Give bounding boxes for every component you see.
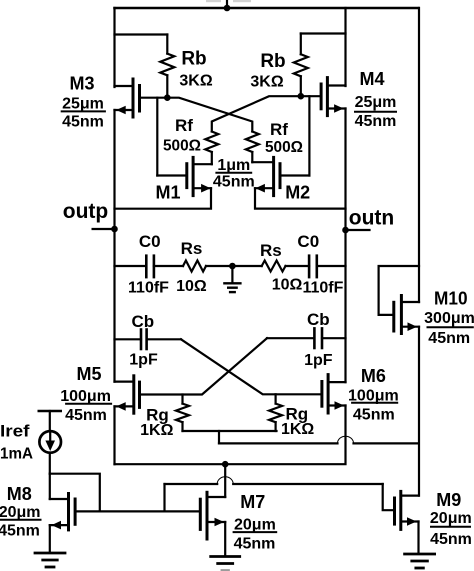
wire: left VDD branch down to M3 source bbox=[113, 8, 115, 87]
svg-text:C0: C0 bbox=[139, 232, 161, 251]
resistor Rg (right) bbox=[269, 394, 282, 431]
wire: right rail M4 source down through outn bbox=[344, 109, 346, 383]
node outp with terminal stub bbox=[93, 226, 118, 233]
svg-text:45nm: 45nm bbox=[353, 406, 395, 423]
transistor M2 bbox=[252, 157, 280, 195]
wire: bias branch up and over to M9 with hop over M7 drain bbox=[165, 477, 395, 512]
ground (M7) bbox=[211, 557, 240, 571]
wire: left rail M3 drain down through outp bbox=[113, 110, 115, 382]
label M6 100μm/45nm bbox=[348, 366, 399, 423]
svg-text:M7: M7 bbox=[240, 492, 265, 512]
label Rg 1KΩ (left) bbox=[140, 405, 173, 439]
wire: outn rail M6 source down to tail rail bbox=[115, 406, 346, 465]
label Rf 500Ω (left) bbox=[163, 116, 201, 155]
wire: M1 source to outp rail bbox=[115, 188, 212, 209]
svg-text:1pF: 1pF bbox=[129, 351, 158, 368]
svg-text:500Ω: 500Ω bbox=[265, 139, 303, 156]
svg-text:20μm: 20μm bbox=[234, 516, 276, 533]
svg-text:Rf: Rf bbox=[270, 120, 288, 139]
svg-text:M9: M9 bbox=[436, 490, 461, 510]
capacitor Cb (left) bbox=[115, 330, 182, 350]
transistor M1 bbox=[187, 157, 212, 195]
svg-text:1KΩ: 1KΩ bbox=[281, 421, 314, 438]
label M5 100μm/45nm bbox=[60, 364, 111, 424]
svg-text:45nm: 45nm bbox=[0, 523, 40, 540]
svg-text:Rs: Rs bbox=[260, 241, 282, 260]
svg-text:500Ω: 500Ω bbox=[163, 138, 201, 155]
svg-text:3KΩ: 3KΩ bbox=[250, 74, 283, 91]
wire: M2 source to outn rail bbox=[255, 188, 346, 208]
ground (center, under Rs junction) bbox=[224, 266, 240, 292]
svg-text:M10: M10 bbox=[434, 289, 468, 309]
svg-text:1KΩ: 1KΩ bbox=[140, 422, 173, 439]
ground (M9) bbox=[405, 554, 435, 568]
svg-text:Cb: Cb bbox=[131, 312, 154, 331]
svg-text:Rs: Rs bbox=[181, 239, 203, 258]
label M10 300μm/45nm bbox=[424, 289, 474, 347]
svg-text:Rb: Rb bbox=[181, 49, 206, 70]
transistor M6 bbox=[322, 375, 346, 413]
svg-text:Rb: Rb bbox=[260, 51, 285, 72]
resistor Rg (left) bbox=[176, 395, 189, 432]
svg-text:Rf: Rf bbox=[175, 116, 193, 135]
svg-text:M4: M4 bbox=[359, 69, 384, 89]
resistor Rf (right) bbox=[246, 132, 259, 163]
transistor M5 bbox=[115, 376, 140, 413]
svg-text:Iref: Iref bbox=[0, 421, 30, 440]
svg-text:1μm: 1μm bbox=[217, 157, 250, 174]
label M9 20μm/45nm bbox=[430, 490, 472, 548]
svg-text:45nm: 45nm bbox=[213, 173, 255, 190]
svg-text:25μm: 25μm bbox=[62, 96, 104, 113]
svg-text:100μm: 100μm bbox=[60, 388, 111, 405]
wire: M1 gate to node A bbox=[157, 98, 187, 176]
resistor Rf (left) bbox=[205, 132, 218, 165]
wire: left rail M5 source down to tail rail bbox=[113, 406, 115, 464]
svg-text:10Ω: 10Ω bbox=[272, 277, 303, 294]
transistor M10 (diode-connected) bbox=[379, 8, 419, 496]
svg-text:C0: C0 bbox=[297, 232, 319, 251]
svg-text:110fF: 110fF bbox=[302, 280, 343, 297]
resistor Rs (right) bbox=[262, 261, 286, 272]
svg-text:Cb: Cb bbox=[307, 310, 330, 329]
wire: bias line to M9/M10 with hop over M6 source bbox=[219, 436, 419, 443]
node: Rs midpoint junction bbox=[206, 263, 262, 270]
wire: cross-couple Cb(right) to M5 gate bbox=[140, 338, 268, 394]
label M8 20μm/45nm bbox=[0, 484, 41, 539]
label Rg 1KΩ (right) bbox=[281, 405, 314, 438]
capacitor C0 (right) bbox=[286, 256, 346, 277]
transistor M4 bbox=[301, 78, 346, 116]
capacitor Cb (right) bbox=[267, 328, 346, 348]
node outn with terminal stub bbox=[342, 227, 369, 234]
svg-text:10Ω: 10Ω bbox=[176, 278, 207, 295]
wire: cross-couple node A to Rf(right) top bbox=[167, 98, 252, 132]
svg-text:M2: M2 bbox=[285, 183, 310, 203]
svg-text:M3: M3 bbox=[69, 74, 94, 94]
capacitor C0 (left) bbox=[115, 256, 184, 277]
svg-text:M5: M5 bbox=[76, 364, 101, 384]
label M3 25μm/45nm bbox=[62, 74, 105, 131]
svg-text:3KΩ: 3KΩ bbox=[179, 73, 212, 90]
svg-text:outp: outp bbox=[63, 200, 108, 223]
wire: gate bias M8 to M7 bbox=[100, 510, 201, 512]
label Cb 1pF (left) bbox=[129, 312, 158, 368]
svg-text:110fF: 110fF bbox=[128, 279, 169, 296]
svg-text:45nm: 45nm bbox=[428, 330, 470, 347]
svg-text:45nm: 45nm bbox=[65, 407, 107, 424]
node: tail junction to M7 bbox=[222, 461, 229, 497]
svg-text:45nm: 45nm bbox=[62, 114, 104, 131]
node VDD junction with stub to top edge bbox=[224, 0, 231, 11]
svg-text:1pF: 1pF bbox=[304, 352, 333, 369]
cropped gray label remnants at top edge bbox=[206, 0, 251, 2]
svg-text:1mA: 1mA bbox=[0, 446, 33, 463]
label outn bbox=[349, 207, 394, 230]
label Rf 500Ω (right) bbox=[265, 120, 303, 156]
label C0 110fF (right) bbox=[297, 232, 343, 297]
svg-text:45nm: 45nm bbox=[430, 531, 472, 548]
wire: cross-couple node B to Rf(left) top bbox=[212, 96, 301, 131]
wire: cross-couple Cb(left) to M6 gate bbox=[181, 339, 322, 394]
node B: Rb2/M4 gate/M2 gate junction bbox=[298, 93, 305, 100]
label M7 20μm/45nm bbox=[234, 492, 277, 553]
label Cb 1pF (right) bbox=[304, 310, 333, 369]
resistor Rb (left) bbox=[115, 35, 175, 98]
label 1μm/45nm (M1,M2) bbox=[213, 157, 255, 190]
current source Iref bbox=[39, 411, 61, 474]
resistor Rb (right) bbox=[294, 34, 346, 97]
svg-text:300μm: 300μm bbox=[424, 310, 474, 327]
label M1 bbox=[155, 183, 180, 203]
label outp bbox=[63, 200, 108, 223]
label Rs 10Ω (left) bbox=[176, 239, 207, 295]
label Iref 1mA bbox=[0, 421, 33, 462]
resistor Rs (left) bbox=[183, 261, 206, 272]
svg-text:45nm: 45nm bbox=[234, 536, 276, 553]
transistor M9 bbox=[395, 491, 419, 552]
svg-text:45nm: 45nm bbox=[355, 113, 397, 130]
transistor M7 (diode-connected) bbox=[200, 492, 225, 555]
VDD top rail bbox=[115, 7, 419, 10]
svg-text:M6: M6 bbox=[361, 366, 386, 386]
label Rb 3KΩ (left) bbox=[179, 49, 212, 90]
label M4 25μm/45nm bbox=[355, 69, 397, 130]
node A: Rb1/M3 gate/M1 gate junction bbox=[164, 94, 171, 101]
wire: M2 gate to node B bbox=[280, 96, 309, 175]
wire: Rg bottoms tie line with step to bias line bbox=[183, 431, 277, 443]
label Rs 10Ω (right) bbox=[260, 241, 302, 294]
transistor M3 bbox=[115, 79, 168, 117]
label Rb 3KΩ (right) bbox=[250, 51, 285, 91]
svg-text:outn: outn bbox=[349, 207, 394, 230]
transistor M8 (diode-connected) bbox=[50, 474, 100, 552]
ground (M8) bbox=[35, 553, 65, 567]
label C0 110fF (left) bbox=[128, 232, 169, 297]
svg-text:25μm: 25μm bbox=[355, 94, 397, 111]
svg-text:M1: M1 bbox=[155, 183, 180, 203]
svg-text:20μm: 20μm bbox=[430, 510, 472, 527]
label M2 bbox=[285, 183, 310, 203]
wire: right VDD branch down to M4 source bbox=[344, 8, 346, 86]
svg-text:20μm: 20μm bbox=[0, 504, 41, 521]
svg-text:M8: M8 bbox=[7, 484, 32, 504]
